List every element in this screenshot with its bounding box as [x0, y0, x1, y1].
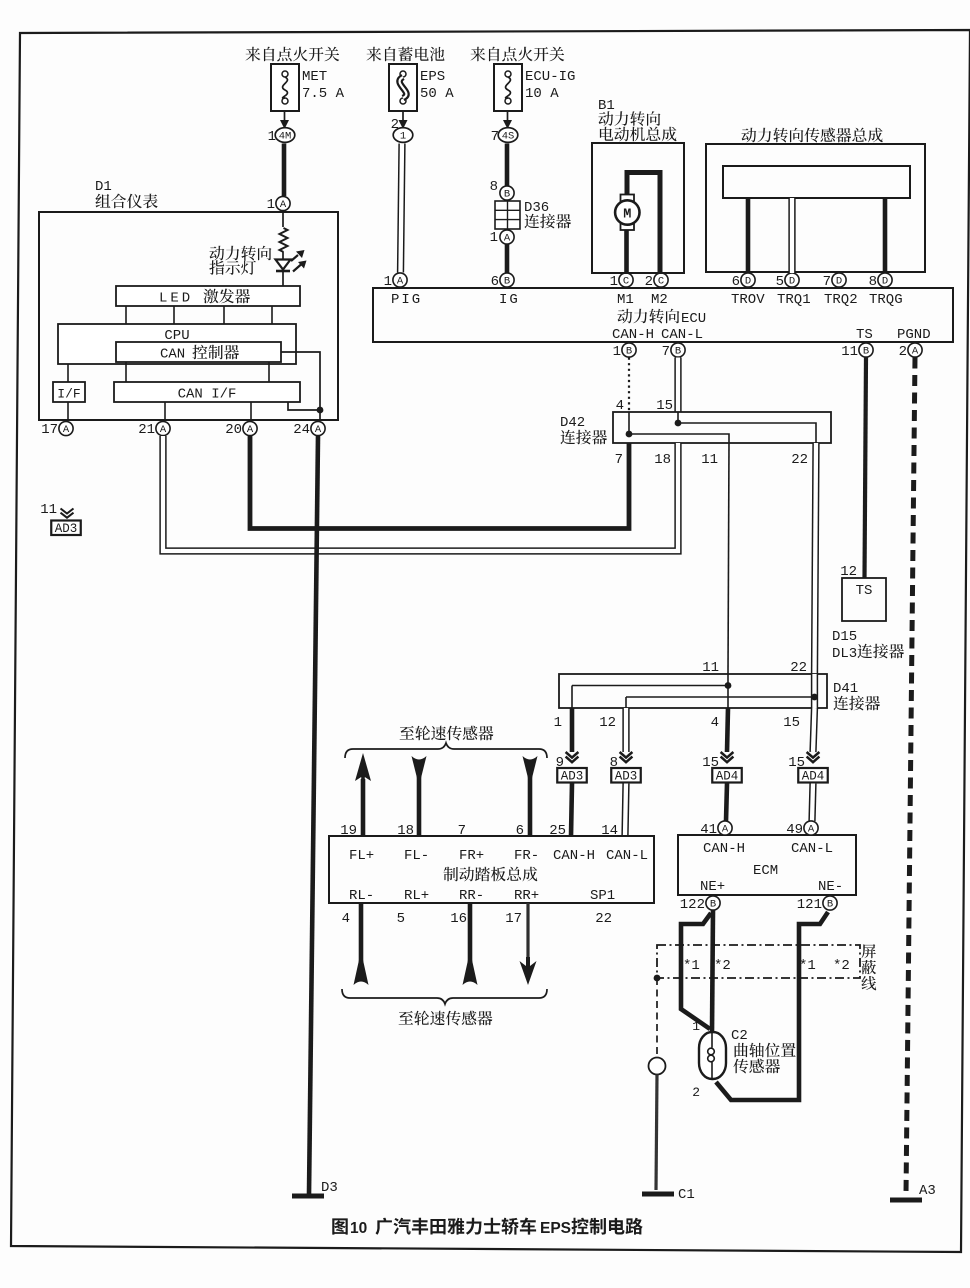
svg-text:C: C	[658, 276, 664, 288]
label D41 pin 11	[702, 660, 719, 676]
svg-text:I/F: I/F	[57, 387, 80, 402]
svg-text:12: 12	[599, 715, 616, 731]
terminal D1 pin 20A	[225, 421, 257, 438]
wire ECU-IG to D36	[505, 144, 510, 187]
box CPU	[58, 324, 296, 364]
fuse EPS 50A	[389, 64, 454, 111]
terminal ECU PGND 2A	[899, 343, 923, 360]
svg-text:122: 122	[680, 897, 705, 913]
box ECM	[678, 835, 856, 895]
svg-text:*1: *1	[799, 958, 816, 974]
svg-text:4: 4	[711, 715, 719, 731]
label D42 pin 15	[656, 398, 673, 414]
label C2 pin 2	[692, 1085, 700, 1100]
wire I/F to pin 17	[67, 402, 69, 420]
terminal ECU TS 11B	[841, 343, 873, 360]
svg-text:6: 6	[516, 823, 524, 839]
label D42 pin 11	[701, 452, 718, 468]
wire to indicator resistor	[282, 211, 284, 227]
marker 9 AD3 CAN-H	[556, 752, 587, 784]
svg-text:1: 1	[554, 715, 562, 731]
wire TRQ1 double	[788, 198, 795, 273]
svg-text:10: 10	[350, 1220, 367, 1237]
marker pin 11 to AD3	[40, 502, 81, 536]
svg-text:14: 14	[601, 823, 618, 839]
svg-text:121: 121	[797, 897, 822, 913]
wire NE+ variant1 jog	[681, 913, 711, 1029]
box sensor assembly	[706, 144, 925, 272]
wire FL+ arrow up	[355, 753, 371, 836]
box D41 connector	[559, 674, 827, 708]
wire MET to D1 pin1	[282, 144, 287, 197]
svg-text:B: B	[710, 899, 716, 911]
box shield 屏蔽线 dashed	[657, 945, 860, 978]
svg-text:IG: IG	[499, 292, 520, 308]
terminal ECM 121B	[797, 896, 837, 913]
svg-text:AD3: AD3	[55, 522, 78, 536]
terminal ECU IG 6B	[491, 273, 520, 308]
wire PIG double	[401, 144, 403, 273]
svg-text:18: 18	[654, 452, 671, 468]
svg-text:CAN-H: CAN-H	[703, 841, 745, 857]
terminal ECM 41A	[700, 821, 732, 838]
label brake pin 5	[397, 911, 405, 927]
svg-text:18: 18	[397, 823, 414, 839]
label PGND ECU	[897, 327, 931, 343]
svg-text:B1: B1	[598, 98, 615, 114]
svg-text:22: 22	[595, 911, 612, 927]
label D36 连接器	[524, 200, 571, 228]
wire D42 pin15 internal	[677, 412, 679, 423]
svg-text:C: C	[623, 276, 629, 288]
svg-text:D: D	[789, 276, 795, 288]
label 至轮速传感器 top	[400, 726, 494, 741]
label D1 组合仪表	[95, 179, 158, 208]
svg-text:A: A	[63, 424, 70, 436]
junction D42 pin4	[626, 431, 633, 438]
label D42 连接器	[560, 415, 607, 444]
box CAN controller	[116, 342, 281, 363]
label C2 pin 1	[692, 1019, 700, 1034]
svg-text:NE-: NE-	[818, 879, 843, 895]
label FL-	[404, 848, 429, 864]
svg-text:*2: *2	[714, 958, 731, 974]
svg-text:11: 11	[40, 502, 57, 518]
wires CAN controller to CAN I/F	[126, 362, 269, 382]
label D41 pin 1	[554, 715, 562, 731]
label brake pin 14	[601, 823, 618, 839]
svg-text:A: A	[912, 346, 919, 358]
svg-text:6: 6	[732, 274, 740, 290]
label 动力转向指示灯	[209, 246, 271, 275]
wire RR- arrow from sensor	[463, 903, 478, 985]
terminal ECU TRQ2 7D	[823, 273, 858, 308]
svg-text:A: A	[315, 424, 322, 436]
wire D41.12 down double	[622, 708, 629, 752]
svg-text:RL-: RL-	[349, 888, 374, 904]
svg-text:4M: 4M	[279, 131, 292, 143]
svg-text:D15: D15	[832, 629, 857, 645]
label RR+	[514, 888, 539, 904]
svg-text:A: A	[397, 276, 404, 288]
terminal ECU TRQ1 5D	[776, 273, 811, 308]
wire PGND dashed to A3	[906, 358, 915, 1195]
svg-text:1: 1	[490, 230, 498, 246]
wire AD3 to brake CAN-L double	[625, 784, 626, 837]
wires LED driver to CPU	[126, 306, 272, 324]
svg-text:1: 1	[692, 1019, 700, 1034]
label brake pin 17	[505, 911, 522, 927]
svg-text:CAN-H: CAN-H	[553, 848, 595, 864]
label D42 pin 22	[791, 452, 808, 468]
svg-text:7.5 A: 7.5 A	[302, 86, 345, 102]
svg-text:2: 2	[692, 1085, 700, 1100]
label SP1	[590, 888, 615, 904]
arrow fuse ECU-IG output	[503, 111, 512, 129]
label RL-	[349, 888, 374, 904]
ground C1	[642, 1187, 695, 1203]
svg-text:CAN I/F: CAN I/F	[178, 387, 237, 403]
box D42 connector	[613, 412, 831, 443]
terminal ECU PIG 1A	[384, 273, 423, 308]
wire D41.15 down double	[813, 708, 815, 752]
svg-text:7: 7	[823, 274, 831, 290]
svg-text:D: D	[836, 276, 842, 288]
label brake pin 22	[595, 911, 612, 927]
connector oval 4S pin 7	[491, 128, 518, 145]
wire CAN I/F to pin 20	[250, 402, 252, 420]
svg-text:CAN-L: CAN-L	[606, 848, 648, 864]
fuse MET 7.5A	[271, 64, 345, 111]
label D41 pin 4	[711, 715, 719, 731]
svg-text:A3: A3	[919, 1183, 936, 1199]
motor M1 wire to pin	[624, 226, 629, 273]
label: from battery (fuse EPS)	[366, 47, 444, 62]
svg-text:CAN-H: CAN-H	[612, 327, 654, 343]
label *1 right	[799, 958, 816, 974]
wire D41.4 down	[727, 708, 728, 752]
terminal ECU CAN-H 1B	[613, 343, 637, 360]
wire FR- arrow in	[523, 756, 538, 836]
svg-text:M1: M1	[617, 292, 634, 308]
svg-text:TS: TS	[856, 327, 873, 343]
svg-text:C1: C1	[678, 1187, 695, 1203]
svg-text:D1: D1	[95, 179, 112, 195]
svg-text:20: 20	[225, 422, 242, 438]
svg-text:TS: TS	[856, 583, 873, 599]
svg-text:15: 15	[783, 715, 800, 731]
box CAN I/F	[114, 382, 300, 403]
junction node D1 right	[317, 407, 324, 414]
svg-text:21: 21	[138, 422, 155, 438]
label D42 pin 7	[615, 452, 623, 468]
label TS ECU	[856, 327, 873, 343]
wire D42 pin4 internal	[628, 412, 630, 434]
fuse ECU-IG 10A	[494, 64, 575, 111]
svg-text:A: A	[247, 424, 254, 436]
svg-text:A: A	[722, 824, 729, 836]
label RR-	[459, 888, 484, 904]
label FR+	[459, 848, 484, 864]
wire AD3 to brake CAN-H	[571, 784, 572, 837]
svg-text:6: 6	[491, 274, 499, 290]
label D41 pin 15	[783, 715, 800, 731]
label D41 pin 12	[599, 715, 616, 731]
brace to wheel speed sensors top	[345, 743, 547, 758]
svg-text:*2: *2	[833, 958, 850, 974]
svg-text:AD3: AD3	[561, 770, 584, 784]
svg-text:RR+: RR+	[514, 888, 539, 904]
wire D41 upper internal	[572, 686, 728, 709]
terminal ECU TROV 6D	[731, 273, 765, 308]
terminal ECU M2 2C	[645, 273, 669, 308]
terminal D1 pin 24A	[293, 421, 325, 438]
terminal ECM 122B	[680, 896, 720, 913]
svg-text:FR+: FR+	[459, 848, 484, 864]
wire CAN-L D42.18 to D1.21	[163, 436, 678, 551]
svg-text:B: B	[626, 346, 632, 358]
svg-text:DL3: DL3	[832, 646, 857, 662]
label D15 pin 12	[840, 564, 857, 580]
svg-text:50 A: 50 A	[420, 86, 454, 102]
label 动力转向传感器总成	[741, 128, 882, 143]
wire TROV	[746, 198, 751, 273]
label 制动踏板总成	[443, 867, 537, 882]
wire CAN-L double ECU to D42	[674, 358, 681, 413]
arrow fuse MET output	[280, 111, 289, 129]
label D41 pin 22	[790, 660, 807, 676]
svg-text:EPS: EPS	[540, 1220, 571, 1237]
label 动力转向ECU	[617, 309, 706, 327]
svg-text:FR-: FR-	[514, 848, 539, 864]
box I/F	[53, 382, 85, 402]
wire TRQG	[883, 198, 888, 273]
svg-text:11: 11	[701, 452, 718, 468]
box LED driver 激发器	[116, 286, 300, 307]
label 屏蔽线 vertical	[861, 944, 876, 990]
label *1 left	[683, 958, 700, 974]
svg-text:AD4: AD4	[802, 770, 825, 784]
label CAN-H ECU	[612, 327, 654, 343]
wire D42.22 to D41.22 double	[815, 443, 817, 674]
svg-text:7: 7	[491, 129, 499, 145]
svg-text:D3: D3	[321, 1180, 338, 1196]
wire motor loop	[627, 173, 660, 274]
box D1 combination meter	[39, 212, 338, 420]
ground A3	[890, 1183, 936, 1200]
svg-text:B: B	[827, 899, 833, 911]
label D42 pin 18	[654, 452, 671, 468]
label ECM CAN-L	[791, 841, 833, 857]
marker 15 AD4 CAN-H	[702, 752, 742, 784]
junction D41 pin11	[725, 682, 732, 689]
box B1 motor assembly	[592, 143, 684, 273]
svg-text:SP1: SP1	[590, 888, 615, 904]
svg-text:ECU-IG: ECU-IG	[525, 69, 575, 85]
svg-text:TRQG: TRQG	[869, 292, 903, 308]
svg-text:RL+: RL+	[404, 888, 429, 904]
svg-text:1: 1	[400, 131, 406, 143]
wire D42 lower internal	[629, 434, 729, 443]
svg-text:ECU: ECU	[681, 311, 706, 327]
box sensor inner	[723, 166, 910, 198]
wire D41 pin11 through	[727, 674, 729, 708]
terminal D1 pin 1A	[267, 196, 291, 213]
wire D41.1 down	[570, 708, 575, 752]
LED indicator diode	[276, 260, 291, 272]
svg-text:FL-: FL-	[404, 848, 429, 864]
label FL+	[349, 848, 374, 864]
svg-text:8: 8	[869, 274, 877, 290]
label brake pin 19	[340, 823, 357, 839]
svg-text:22: 22	[791, 452, 808, 468]
box brake pedal assembly	[329, 836, 654, 903]
wire D42 upper internal	[678, 423, 816, 443]
marker 8 AD3 CAN-L	[610, 752, 641, 784]
svg-text:MET: MET	[302, 69, 327, 85]
label: from ignition switch (fuse ECU-IG)	[470, 47, 564, 62]
svg-text:FL+: FL+	[349, 848, 374, 864]
svg-text:RR-: RR-	[459, 888, 484, 904]
svg-text:5: 5	[397, 911, 405, 927]
terminal ECM 49A	[786, 821, 818, 838]
svg-text:TROV: TROV	[731, 292, 765, 308]
wire NE- path	[716, 912, 828, 1100]
svg-text:B: B	[675, 346, 681, 358]
svg-text:7: 7	[662, 344, 670, 360]
svg-text:17: 17	[41, 422, 58, 438]
svg-text:2: 2	[645, 274, 653, 290]
svg-text:1: 1	[267, 197, 275, 213]
svg-text:PGND: PGND	[897, 327, 931, 343]
svg-text:C2: C2	[731, 1028, 748, 1044]
svg-text:CAN-L: CAN-L	[661, 327, 703, 343]
svg-text:8: 8	[490, 179, 498, 195]
connector oval 1	[393, 128, 413, 143]
brace to wheel speed sensors bottom	[342, 989, 547, 1004]
svg-text:5: 5	[776, 274, 784, 290]
label brake CAN-H	[553, 848, 595, 864]
label brake pin 7	[458, 823, 466, 839]
svg-text:B: B	[504, 276, 510, 288]
svg-text:1: 1	[610, 274, 618, 290]
wire D36 to IG	[505, 245, 510, 273]
wire CAN-H D42.7 to D1.20	[250, 436, 629, 529]
caption title	[332, 1218, 643, 1237]
svg-text:PIG: PIG	[391, 292, 422, 308]
wire CPU to I/F	[67, 364, 69, 382]
svg-text:24: 24	[293, 422, 310, 438]
label D41 连接器	[833, 681, 880, 710]
label FR-	[514, 848, 539, 864]
shield drain connector circle	[649, 1058, 666, 1075]
wire node to pin 24	[319, 410, 321, 420]
svg-text:1: 1	[268, 129, 276, 145]
sensor C2 coil	[708, 1033, 715, 1080]
svg-text:M: M	[623, 208, 631, 223]
terminal ECU M1 1C	[610, 273, 634, 308]
label NE-	[818, 879, 843, 895]
svg-text:CAN-L: CAN-L	[791, 841, 833, 857]
resistor R indicator	[280, 228, 288, 252]
svg-text:TRQ1: TRQ1	[777, 292, 811, 308]
wire CAN ctrl right to node	[281, 352, 320, 410]
wire TS ECU to D15	[865, 358, 867, 579]
svg-text:ECM: ECM	[753, 863, 778, 879]
svg-text:A: A	[280, 199, 287, 211]
label *2 left	[714, 958, 731, 974]
svg-text:*1: *1	[683, 958, 700, 974]
svg-text:TRQ2: TRQ2	[824, 292, 858, 308]
label brake pin 16	[450, 911, 467, 927]
motor M symbol	[615, 195, 639, 231]
svg-text:D: D	[745, 276, 751, 288]
wire D41 lower internal	[626, 697, 815, 708]
svg-text:11: 11	[841, 344, 858, 360]
arrow fuse EPS output pin 2	[391, 111, 408, 133]
wire D42.11 to D41.11	[728, 443, 729, 674]
label *2 right	[833, 958, 850, 974]
wire FL- arrow in	[412, 756, 427, 836]
wire shield drain dashed	[656, 978, 658, 1058]
wire D1 pin24 to ground D3	[309, 436, 318, 1194]
box TS D15 connector	[842, 578, 886, 621]
svg-text:A: A	[160, 424, 167, 436]
svg-text:19: 19	[340, 823, 357, 839]
label D42 pin 4	[616, 398, 624, 414]
svg-text:AD4: AD4	[716, 770, 739, 784]
label ECM CAN-H	[703, 841, 745, 857]
label D15 DL3连接器	[832, 629, 904, 662]
label B1 动力转向电动机总成	[598, 98, 676, 141]
wire AD4 to ECM CAN-H	[726, 784, 727, 822]
label RL+	[404, 888, 429, 904]
label brake CAN-L	[606, 848, 648, 864]
label 至轮速传感器 bottom	[399, 1011, 493, 1026]
svg-text:4S: 4S	[502, 131, 515, 143]
svg-text:16: 16	[450, 911, 467, 927]
terminal ECU CAN-L 7B	[662, 343, 686, 360]
svg-text:1: 1	[384, 274, 392, 290]
wire resistor to LED	[282, 252, 284, 259]
svg-text:25: 25	[549, 823, 566, 839]
box power steering ECU	[373, 288, 953, 342]
label brake pin 25	[549, 823, 566, 839]
wire CAN I/F to node	[288, 402, 320, 410]
svg-text:B: B	[863, 346, 869, 358]
label brake pin 18	[397, 823, 414, 839]
svg-text:10 A: 10 A	[525, 86, 559, 102]
terminal ECU TRQG 8D	[869, 273, 903, 308]
junction D42 pin15	[675, 420, 682, 427]
terminal 1A below D36	[490, 230, 515, 246]
junction shield drain	[654, 975, 661, 982]
svg-text:1: 1	[613, 344, 621, 360]
ground D3	[292, 1180, 338, 1196]
sensor C2 body	[699, 1032, 726, 1079]
wire D41 pin22 through double	[811, 674, 818, 708]
svg-text:4: 4	[342, 911, 350, 927]
svg-text:D36: D36	[524, 200, 549, 216]
connector oval 4M pin 1	[268, 128, 295, 145]
terminal D1 pin 21A	[138, 421, 170, 438]
terminal D1 pin 17A	[41, 421, 73, 438]
wire AD4 to ECM CAN-L double	[812, 784, 813, 822]
svg-text:41: 41	[700, 822, 717, 838]
wire CAN I/F to pin 21	[164, 402, 166, 420]
svg-text:B: B	[504, 189, 510, 201]
marker 15 AD4 CAN-L	[788, 752, 828, 784]
